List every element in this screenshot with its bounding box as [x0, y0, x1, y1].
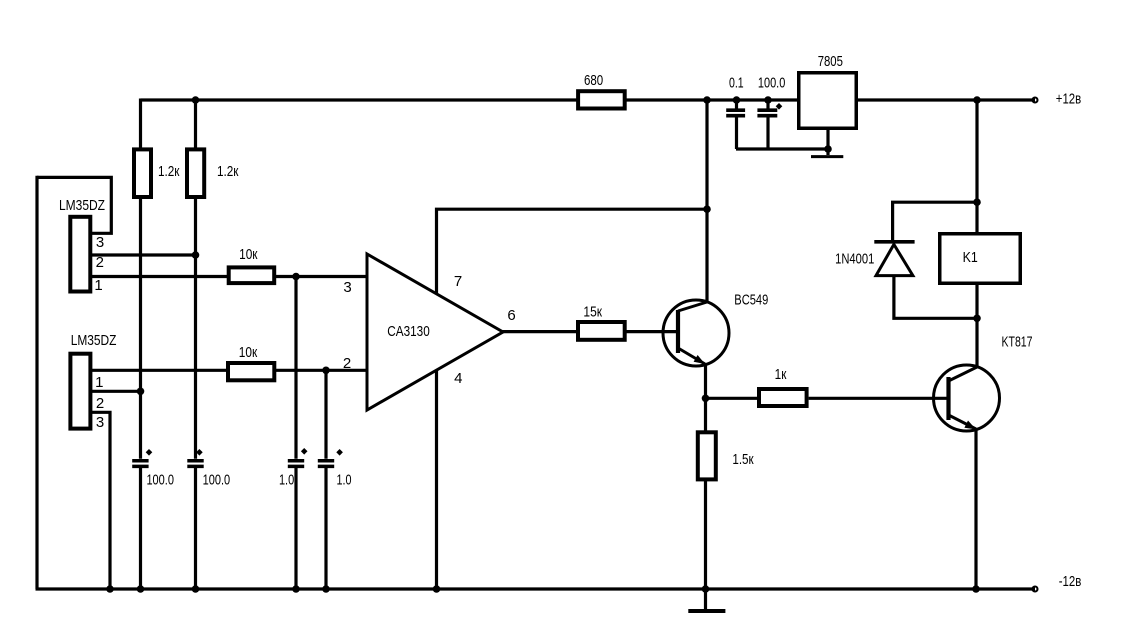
wire 7805 gnd pin — [826, 128, 829, 155]
node junction rail / C5 — [733, 96, 741, 104]
svg-text:6: 6 — [507, 307, 515, 324]
diode D1 1N4001 — [835, 202, 977, 318]
wire capacitor return — [736, 147, 828, 150]
wire pin7 feedback — [437, 209, 708, 294]
regulator U4 7805 — [799, 53, 857, 128]
resistor R7 1.5k — [698, 398, 754, 589]
node junction pin2 / C1 line — [137, 388, 145, 396]
wire Q2 emitter — [974, 429, 977, 589]
capacitor C2 100.0 — [187, 449, 230, 589]
svg-text:KT817: KT817 — [1002, 334, 1033, 351]
wire R5 to Q1 base — [625, 330, 678, 333]
wire R6 to Q2 base — [809, 397, 949, 400]
svg-text:10к: 10к — [239, 246, 258, 263]
resistor R3 10k — [229, 246, 275, 283]
wire pin4 drop — [435, 370, 438, 589]
capacitor C3 1.0 — [279, 277, 308, 590]
svg-text:7: 7 — [454, 273, 462, 290]
svg-text:+12в: +12в — [1056, 91, 1081, 108]
resistor R1 1.2k — [134, 149, 180, 197]
wire Q1 collector — [705, 100, 708, 302]
capacitor C4 1.0 — [318, 370, 352, 589]
wire op-amp output — [502, 330, 578, 333]
svg-text:7805: 7805 — [818, 53, 843, 70]
ground bottom — [688, 589, 725, 611]
op-amp U3 CA3130 — [367, 254, 503, 410]
svg-text:680: 680 — [584, 72, 603, 89]
wire R2 top stub — [194, 100, 197, 149]
capacitor C1 100.0 — [132, 449, 174, 589]
svg-text:1N4001: 1N4001 — [835, 250, 874, 267]
node junction pin2 / R2 line — [192, 251, 200, 259]
wire R4 to op-amp pin2 — [276, 369, 367, 372]
wire U1 pin2 — [91, 253, 196, 256]
wire emitter to R6 — [706, 397, 760, 400]
svg-text:3: 3 — [343, 279, 351, 296]
resistor R4 10k — [228, 344, 274, 380]
node junction pin4 — [433, 585, 441, 593]
sensor U2 LM35DZ — [70, 332, 116, 429]
svg-text:CA3130: CA3130 — [387, 323, 430, 340]
resistor R5 15k — [578, 304, 625, 340]
node junction Q2 emitter — [972, 585, 980, 593]
node junction rail / right vertical — [973, 96, 981, 104]
wire right vertical upper — [975, 100, 978, 232]
sensor U1 LM35DZ — [59, 197, 105, 292]
wire R2 lower vertical — [194, 198, 197, 459]
wire R1 top stub — [139, 99, 142, 150]
svg-text:2: 2 — [343, 355, 351, 372]
svg-text:1: 1 — [95, 374, 103, 391]
node junction C4 tap — [322, 367, 330, 375]
node junction top rail / R2 — [192, 96, 200, 104]
svg-text:1.0: 1.0 — [337, 471, 352, 488]
svg-text:100.0: 100.0 — [146, 471, 174, 488]
transistor Q2 KT817 — [934, 334, 1033, 431]
wire top rail left — [141, 98, 579, 101]
wire Q1 emitter — [704, 364, 707, 398]
svg-text:3: 3 — [96, 414, 104, 431]
node junction C4 — [322, 585, 330, 593]
capacitor C5 0.1 — [726, 75, 745, 150]
wire relay to Q2 collector — [975, 284, 978, 368]
node junction diode bottom — [973, 315, 981, 323]
svg-text:3: 3 — [96, 234, 104, 251]
svg-text:LM35DZ: LM35DZ — [71, 332, 117, 349]
wire U1 pin1 — [91, 275, 228, 278]
transistor Q1 BC549 — [663, 292, 768, 366]
node junction top rail / collector — [703, 96, 711, 104]
svg-text:10к: 10к — [239, 344, 258, 361]
svg-text:1.5к: 1.5к — [732, 451, 754, 468]
wire left rail — [35, 176, 38, 589]
resistor R8 680 — [578, 72, 625, 109]
svg-text:100.0: 100.0 — [203, 471, 231, 488]
svg-text:K1: K1 — [963, 249, 978, 266]
svg-text:0.1: 0.1 — [729, 75, 744, 92]
svg-text:-12в: -12в — [1059, 573, 1082, 590]
svg-text:1к: 1к — [775, 366, 787, 383]
wire top rail mid — [625, 98, 799, 101]
node junction cap return / 7805 gnd — [824, 145, 832, 153]
node junction C3 — [292, 585, 300, 593]
svg-text:15к: 15к — [583, 304, 602, 321]
node junction rail / C6 — [764, 96, 772, 104]
node junction C3 tap — [292, 273, 300, 281]
ground 7805 — [811, 155, 843, 158]
svg-text:1.2к: 1.2к — [217, 163, 239, 180]
node junction diode top — [973, 198, 981, 206]
wire R3 to op-amp pin3 — [276, 275, 367, 278]
relay K1 — [940, 234, 1021, 284]
svg-text:BC549: BC549 — [734, 292, 768, 309]
svg-text:1: 1 — [94, 277, 102, 294]
svg-text:1.2к: 1.2к — [158, 163, 180, 180]
svg-text:LM35DZ: LM35DZ — [59, 197, 105, 214]
wire U2 pin1 — [92, 369, 228, 372]
node terminal -12v — [1033, 587, 1038, 592]
wire U2 pin2 stub — [92, 390, 141, 393]
svg-text:4: 4 — [454, 370, 462, 387]
node junction U2 pin3 — [106, 585, 114, 593]
node terminal +12v — [1033, 98, 1038, 103]
node junction C1 — [137, 585, 145, 593]
resistor R6 1k — [759, 366, 807, 406]
svg-text:100.0: 100.0 — [758, 75, 785, 92]
capacitor C6 100.0 — [757, 75, 785, 150]
svg-text:1.0: 1.0 — [279, 471, 294, 488]
wire R1 lower vertical — [139, 198, 142, 459]
wire U2 pin3 drop — [92, 412, 110, 589]
node junction R7 / ground — [702, 585, 710, 593]
node junction emitter / R6 / R7 — [702, 395, 710, 403]
svg-text:2: 2 — [96, 395, 104, 412]
node junction C2 — [192, 585, 200, 593]
resistor R2 1.2k — [187, 149, 239, 197]
wire U1 pin3 bracket — [37, 177, 111, 233]
node junction feedback / collector line — [703, 205, 711, 213]
wire bottom rail — [36, 587, 1036, 590]
wire top rail right — [857, 98, 1036, 101]
